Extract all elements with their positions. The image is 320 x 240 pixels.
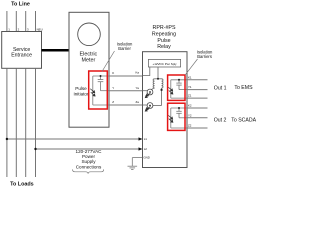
svg-text:Z: Z (112, 100, 114, 104)
svg-text:Electric: Electric (80, 51, 98, 57)
svg-text:Out 2: Out 2 (214, 117, 227, 123)
svg-text:L2: L2 (144, 147, 148, 151)
svg-text:Barriers: Barriers (197, 54, 212, 59)
svg-text:Connections: Connections (76, 164, 102, 169)
svg-text:Z1: Z1 (188, 94, 192, 98)
svg-text:NEU: NEU (37, 28, 43, 32)
svg-text:GND: GND (143, 156, 149, 160)
svg-text:Z2: Z2 (188, 124, 192, 128)
svg-text:Entrance: Entrance (11, 53, 32, 59)
svg-text:Y: Y (112, 86, 114, 90)
svg-text:Ya: Ya (136, 86, 140, 90)
svg-text:K1: K1 (188, 75, 192, 79)
svg-text:+12VDC Pwr Sply: +12VDC Pwr Sply (152, 62, 177, 66)
svg-text:Pulse: Pulse (157, 38, 170, 44)
svg-text:L1: L1 (144, 137, 148, 141)
svg-text:Relay: Relay (157, 44, 171, 50)
svg-text:Za: Za (136, 100, 140, 104)
svg-text:Meter: Meter (82, 58, 96, 64)
svg-text:Y2: Y2 (188, 113, 192, 117)
svg-text:Ka: Ka (136, 71, 140, 75)
svg-text:To Loads: To Loads (10, 182, 34, 188)
svg-text:Repeating: Repeating (152, 32, 176, 38)
svg-text:K: K (112, 71, 114, 75)
svg-text:RPR-#PS: RPR-#PS (153, 25, 176, 31)
svg-text:To EMS: To EMS (234, 85, 253, 91)
svg-text:Initiator: Initiator (73, 91, 89, 96)
svg-text:Out 1: Out 1 (214, 86, 227, 92)
svg-text:To Line: To Line (11, 2, 30, 8)
svg-text:To SCADA: To SCADA (231, 117, 256, 123)
svg-text:K2: K2 (188, 104, 192, 108)
svg-text:Y1: Y1 (188, 85, 192, 89)
svg-text:Barrier: Barrier (118, 46, 131, 51)
